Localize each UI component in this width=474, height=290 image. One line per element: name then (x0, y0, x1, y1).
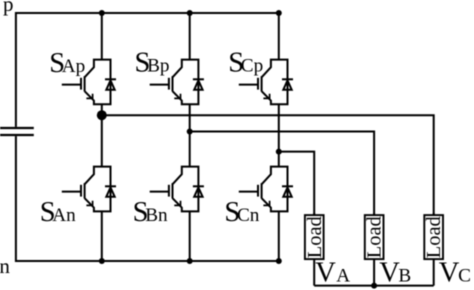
capacitor C (DC link), plates (0, 128, 34, 135)
emitter arrow of SAn (86, 201, 92, 206)
transistor SBn gate bar (168, 185, 170, 197)
transistor SCp outline/collector/emitter (262, 60, 288, 105)
gate lead of SBn (150, 191, 169, 193)
svg-text:C: C (458, 266, 471, 287)
junction: p rail / phase B leg (187, 10, 193, 16)
diode of SCn (cathode bar + triangle) (282, 185, 293, 187)
transistor SCp gate bar (257, 78, 259, 90)
load resistor 1 (phase VA) (304, 215, 326, 259)
transistor SAp gate bar (80, 78, 82, 90)
transistor SAn outline/collector/emitter (85, 167, 111, 212)
diode of SBp (cathode bar + triangle) (193, 78, 204, 80)
svg-text:Load: Load (423, 216, 445, 258)
svg-text:V: V (315, 258, 336, 289)
svg-text:Bn: Bn (145, 205, 168, 226)
svg-text:V: V (379, 258, 400, 289)
junction: neutral / load 2 (371, 283, 377, 289)
junction: phase C midpoint node (276, 149, 282, 155)
junction: p rail / phase C leg (276, 10, 282, 16)
svg-text:V: V (439, 258, 460, 289)
svg-text:A: A (336, 266, 350, 287)
IGBT switch SCp with antiparallel diode (239, 60, 293, 105)
wire: phase C leg, lower switch to n rail (278, 211, 280, 261)
diode of SAn (cathode bar + triangle) (105, 185, 116, 187)
transistor SAp body bar (84, 76, 86, 91)
emitter arrow of SCp (263, 94, 269, 99)
wire: phase A output to load 3 (102, 115, 434, 215)
wire: load 2 top lead (373, 213, 375, 215)
load resistor 3 (phase VC) (423, 215, 445, 259)
transistor SBp outline/collector/emitter (173, 60, 199, 105)
gate lead of SCp (239, 84, 258, 86)
IGBT switch SAp with antiparallel diode (62, 60, 116, 105)
gate lead of SAp (62, 84, 81, 86)
diode of SBn (cathode bar + triangle) (193, 185, 204, 187)
transistor SBp gate bar (168, 78, 170, 90)
IGBT switch SCn with antiparallel diode (239, 167, 293, 212)
diode of SAp (cathode bar + triangle) (105, 78, 116, 80)
load resistor 2 (phase VB) (364, 215, 386, 259)
wire: load 3 top lead (433, 213, 435, 215)
gate lead of SAn (62, 191, 81, 193)
IGBT switch SAn with antiparallel diode (62, 167, 116, 212)
transistor SCn outline/collector/emitter (262, 167, 288, 212)
transistor SAn body bar (84, 183, 86, 198)
transistor SCp body bar (261, 76, 263, 91)
junction: phase A midpoint node (97, 110, 107, 120)
IGBT switch SBp with antiparallel diode (150, 60, 204, 105)
wire: phase C leg, upper switch to lower switch (midpoint) (278, 104, 280, 166)
diode of SCp (cathode bar + triangle) (282, 78, 293, 80)
IGBT switch SBn with antiparallel diode (150, 167, 204, 212)
wire: phase A leg, p rail to upper switch (101, 13, 103, 60)
emitter arrow of SBp (174, 94, 180, 99)
transistor SCn gate bar (257, 185, 259, 197)
svg-text:Load: Load (304, 216, 326, 258)
wire: phase A leg, lower switch to n rail (101, 211, 103, 261)
svg-text:n: n (0, 254, 10, 278)
wire: negative DC rail (net n) (16, 260, 279, 262)
wire: phase B leg, p rail to upper switch (189, 13, 191, 60)
svg-text:Cp: Cp (241, 55, 263, 76)
gate lead of SCn (239, 191, 258, 193)
wire: phase C output to load 1 (279, 152, 314, 216)
svg-text:An: An (52, 205, 76, 226)
wire: load 1 top lead (313, 213, 315, 215)
junction: n rail / phase B leg (187, 258, 193, 264)
wire: DC-link left branch upper (15, 12, 17, 127)
transistor SCn body bar (261, 183, 263, 198)
emitter arrow of SCn (263, 201, 269, 206)
svg-text:Bp: Bp (147, 55, 169, 76)
gate lead of SBp (150, 84, 169, 86)
wire: phase B output to load 2 (190, 132, 374, 216)
svg-text:Load: Load (364, 216, 386, 258)
junction: n rail / phase A leg (99, 258, 105, 264)
svg-text:Ap: Ap (62, 56, 85, 77)
svg-text:Cn: Cn (237, 205, 260, 226)
wire: load neutral (star point) (314, 285, 434, 287)
wire: phase B leg, upper switch to lower switch (midpoint) (189, 104, 191, 166)
emitter arrow of SAp (86, 94, 92, 99)
wire: phase B leg, lower switch to n rail (189, 211, 191, 261)
wire: load 1 bottom lead (313, 259, 315, 286)
transistor SBn outline/collector/emitter (173, 167, 199, 212)
wire: DC-link left branch lower (15, 136, 17, 262)
junction: p rail / phase A leg (99, 10, 105, 16)
transistor SAn gate bar (80, 185, 82, 197)
wire: positive DC rail (net p) (16, 12, 279, 14)
svg-text:p: p (3, 0, 14, 16)
svg-text:B: B (398, 266, 411, 287)
wire: load 3 bottom lead (433, 259, 435, 286)
transistor SAp outline/collector/emitter (85, 60, 111, 105)
emitter arrow of SBn (174, 201, 180, 206)
wire: load 2 bottom lead (373, 259, 375, 286)
wire: phase C leg, p rail to upper switch (278, 13, 280, 60)
junction: phase B midpoint node (187, 129, 193, 135)
transistor SBn body bar (172, 183, 174, 198)
transistor SBp body bar (172, 76, 174, 91)
junction: n rail / phase C leg (276, 258, 282, 264)
wire: phase A leg, upper switch to lower switch (midpoint) (101, 104, 103, 166)
